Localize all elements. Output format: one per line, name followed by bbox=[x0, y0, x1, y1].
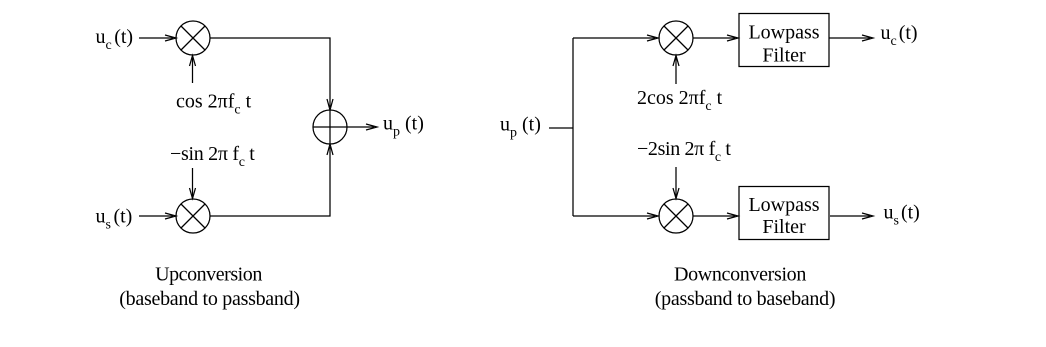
wire summer output arrow bbox=[347, 124, 377, 130]
wire carrier -2sin into M4 (arrow down) bbox=[673, 167, 679, 199]
caption passband to baseband bbox=[655, 288, 835, 310]
multiplier M1 (upconversion cosine mixer) bbox=[176, 21, 210, 55]
node uc(t) output label (right) bbox=[881, 22, 918, 49]
wire carrier cos into M1 (arrow up) bbox=[190, 56, 196, 84]
block lowpass filter 1 bbox=[739, 14, 829, 67]
label -sin 2 pi fc t bbox=[170, 143, 255, 170]
svg-text:(baseband to passband): (baseband to passband) bbox=[119, 288, 299, 310]
svg-text:Filter: Filter bbox=[762, 45, 806, 67]
wire carrier 2cos into M3 (arrow up) bbox=[673, 56, 679, 85]
multiplier M4 (downconversion sine mixer) bbox=[659, 199, 693, 233]
svg-text:Lowpass: Lowpass bbox=[748, 22, 819, 44]
wire us(t) input arrow bbox=[139, 213, 176, 219]
svg-text:(passband to baseband): (passband to baseband) bbox=[655, 288, 835, 310]
node us(t) input label (left) bbox=[96, 206, 133, 233]
wire filter 2 output arrow bbox=[830, 213, 873, 219]
node up(t) input label (right) bbox=[500, 114, 541, 141]
svg-text:Upconversion: Upconversion bbox=[155, 264, 262, 286]
label cos 2 pi fc t bbox=[176, 91, 252, 118]
wire M2 output to summer bottom bbox=[210, 144, 333, 216]
caption baseband to passband bbox=[119, 288, 299, 310]
caption Downconversion bbox=[674, 264, 806, 286]
wire up(t) stub into split node bbox=[549, 127, 573, 129]
wire top branch into M3 bbox=[573, 35, 658, 41]
multiplier M2 (upconversion sine mixer) bbox=[176, 199, 210, 233]
wire M1 output to summer top bbox=[210, 38, 333, 110]
svg-text:Filter: Filter bbox=[762, 216, 806, 238]
wire uc(t) input arrow bbox=[139, 35, 176, 41]
label Lowpass Filter 2 bbox=[748, 194, 819, 238]
wire vertical splitter bus bbox=[572, 38, 574, 216]
multiplier M3 (downconversion cosine mixer) bbox=[659, 21, 693, 55]
label Lowpass Filter 1 bbox=[748, 22, 819, 67]
label -2sin 2 pi fc t bbox=[637, 138, 731, 165]
wire filter 1 output arrow bbox=[829, 35, 873, 41]
caption Upconversion bbox=[155, 264, 262, 286]
node uc(t) input label (left) bbox=[96, 26, 134, 53]
svg-text:Downconversion: Downconversion bbox=[674, 264, 806, 286]
wire M4 to lowpass filter 2 bbox=[693, 213, 738, 219]
node up(t) output label (left) bbox=[383, 113, 424, 140]
node us(t) output label (right) bbox=[884, 202, 920, 229]
wire M3 to lowpass filter 1 bbox=[693, 35, 738, 41]
wire carrier -sin into M2 (arrow down) bbox=[190, 168, 196, 199]
wire bottom branch into M4 bbox=[573, 213, 658, 219]
svg-text:Lowpass: Lowpass bbox=[748, 194, 819, 216]
adder S1 (summing junction) bbox=[313, 110, 347, 144]
label 2cos 2 pi fc t bbox=[637, 87, 723, 114]
block lowpass filter 2 bbox=[739, 187, 829, 240]
